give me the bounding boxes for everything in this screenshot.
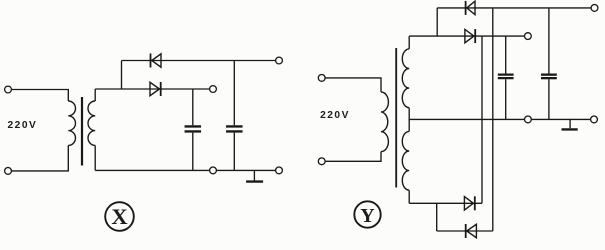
- svg-text:X: X: [111, 204, 127, 229]
- svg-text:220V: 220V: [320, 110, 350, 121]
- svg-text:Y: Y: [360, 205, 375, 227]
- svg-text:220V: 220V: [8, 120, 38, 131]
